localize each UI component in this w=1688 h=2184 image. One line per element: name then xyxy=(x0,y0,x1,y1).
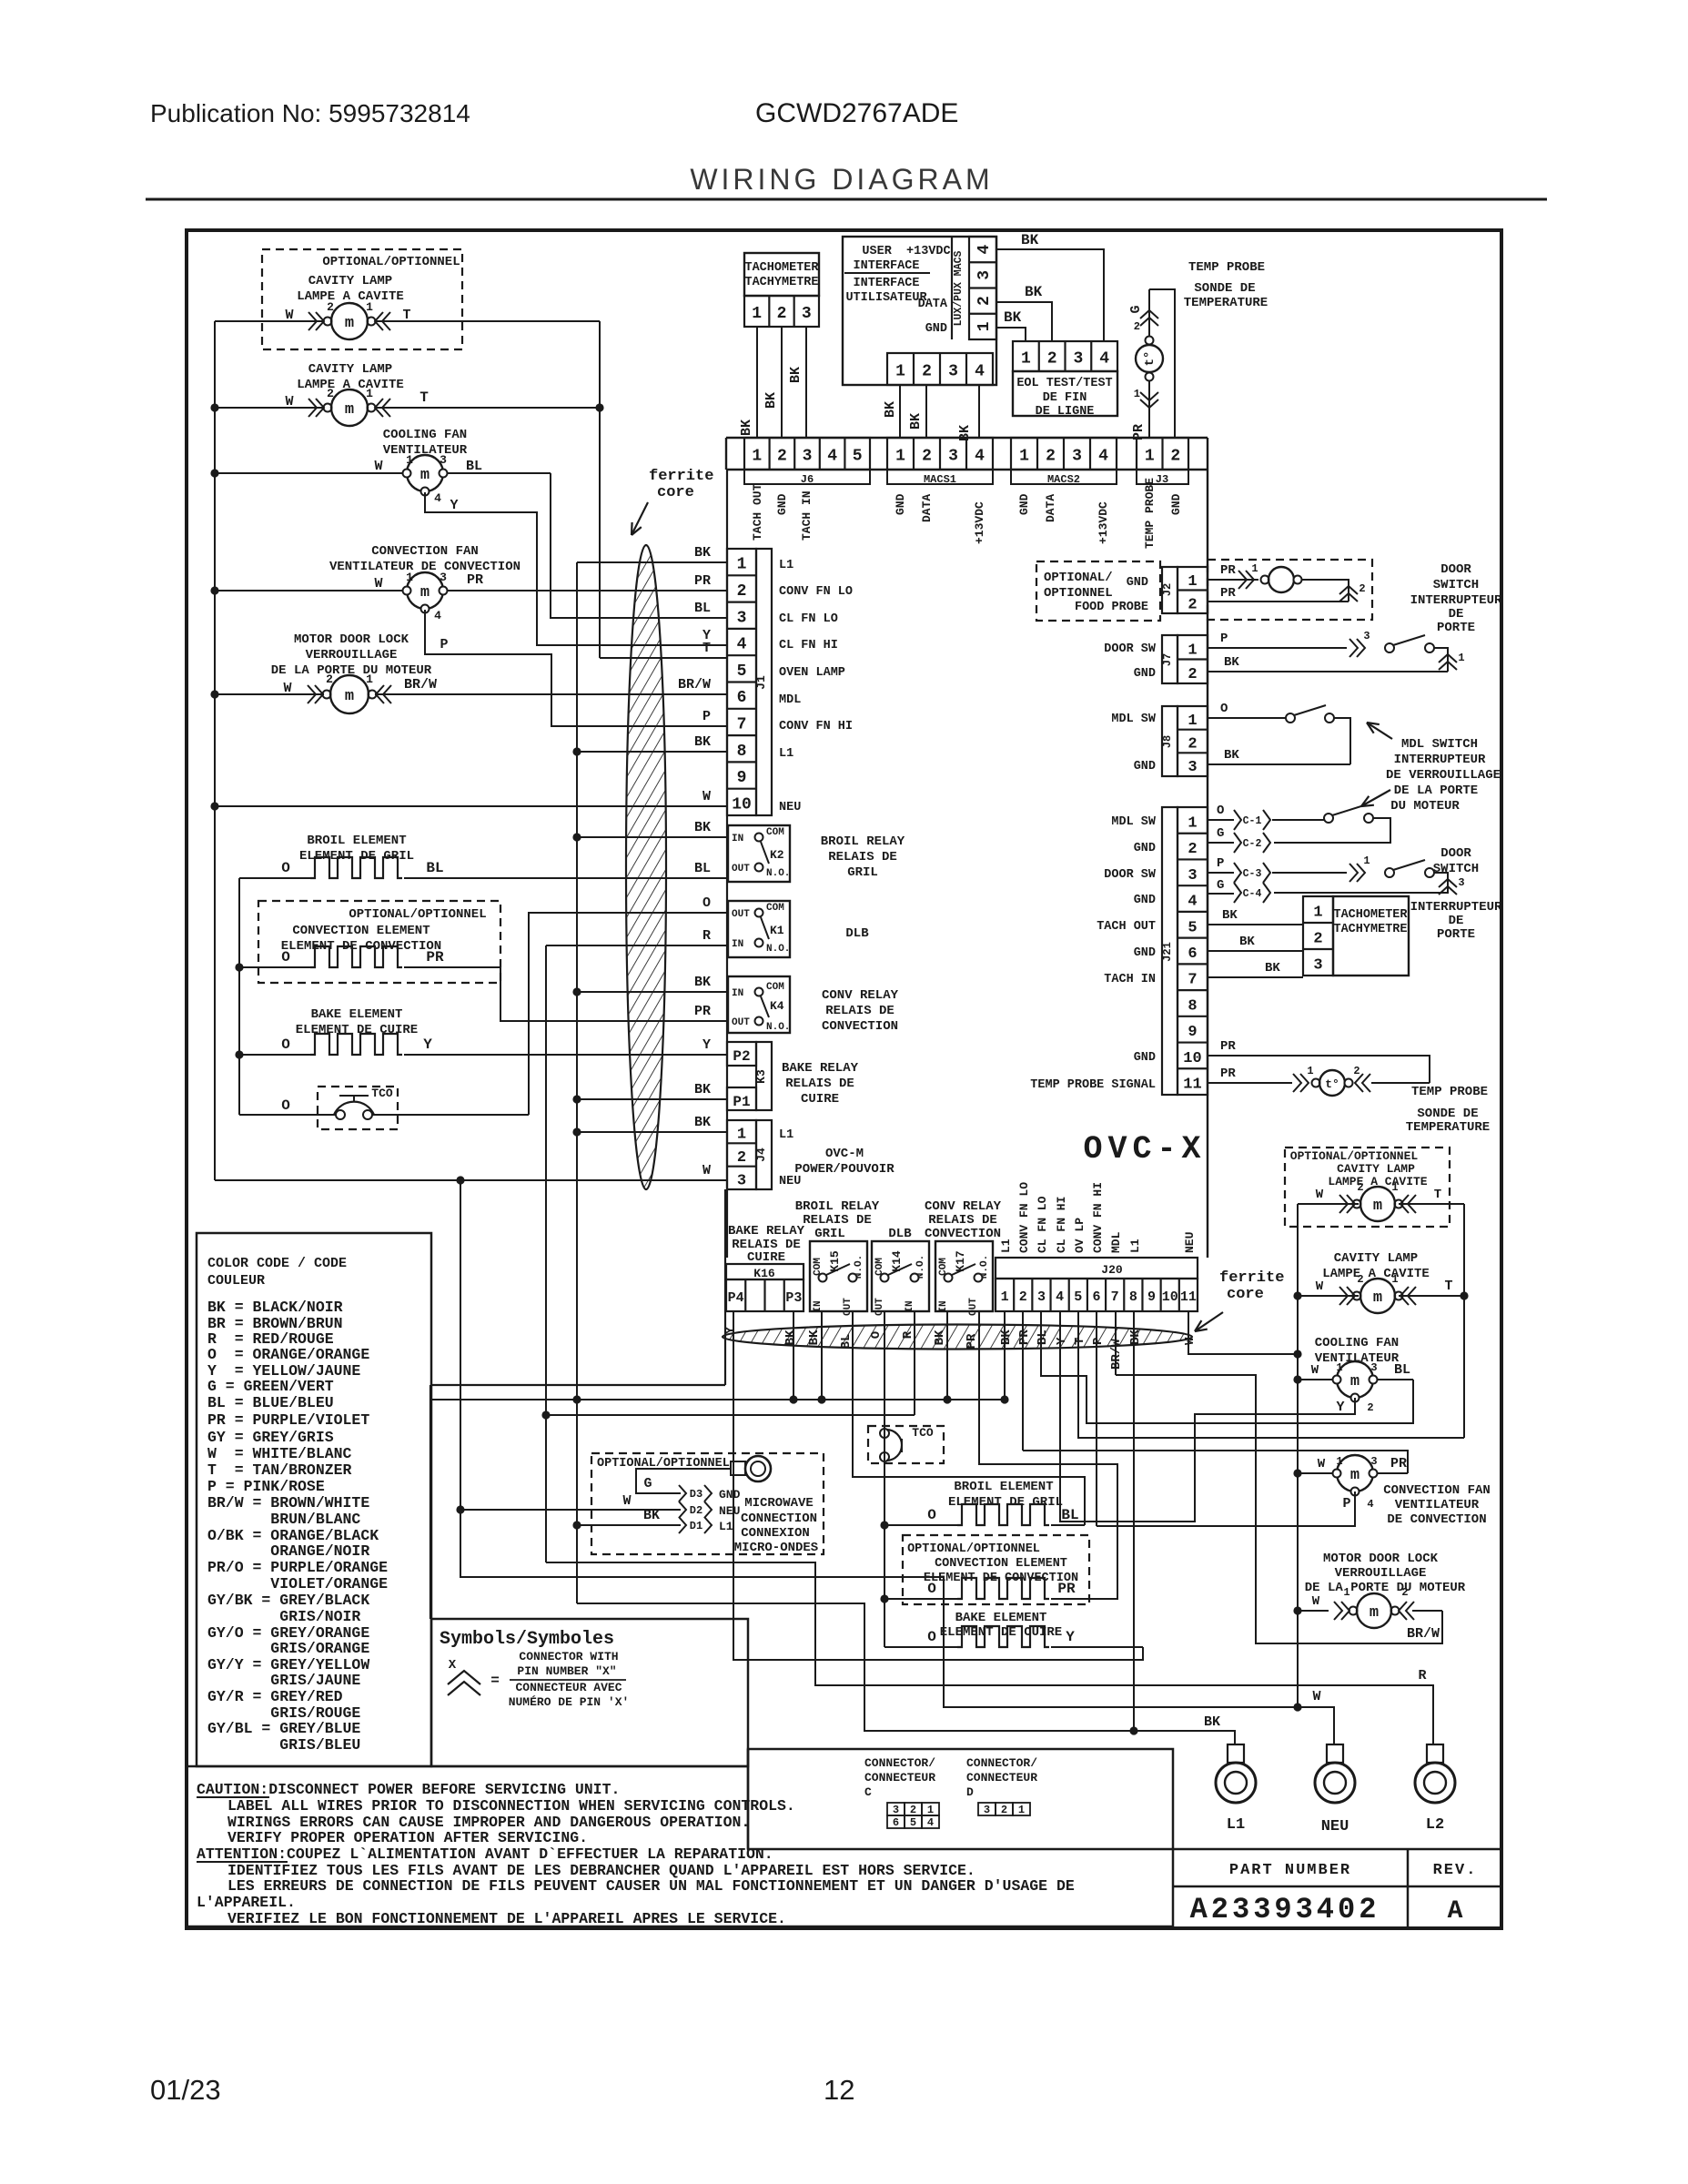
svg-text:BK: BK xyxy=(643,1508,660,1523)
food probe switch circuit xyxy=(1208,579,1258,581)
svg-text:DE LIGNE: DE LIGNE xyxy=(1036,405,1095,419)
svg-text:DE LA PORTE: DE LA PORTE xyxy=(1394,784,1478,798)
optional convection element 2 dashed box xyxy=(903,1535,1089,1604)
svg-text:4: 4 xyxy=(1188,894,1197,911)
svg-text:1: 1 xyxy=(1188,642,1197,659)
svg-text:O: O xyxy=(281,860,290,876)
svg-text:X: X xyxy=(449,1658,457,1673)
svg-text:m: m xyxy=(345,401,354,419)
svg-text:RELAIS DE: RELAIS DE xyxy=(928,1213,997,1228)
svg-text:O: O xyxy=(927,1581,936,1597)
svg-text:TACH OUT: TACH OUT xyxy=(1097,920,1156,934)
connector J7 xyxy=(1162,635,1178,683)
svg-text:3: 3 xyxy=(948,363,958,381)
svg-text:UTILISATEUR: UTILISATEUR xyxy=(845,291,927,305)
svg-text:DE: DE xyxy=(1449,607,1464,622)
wire BL to J1-3 xyxy=(551,473,728,618)
svg-text:DU MOTEUR: DU MOTEUR xyxy=(1390,799,1460,814)
svg-text:3: 3 xyxy=(1363,630,1370,642)
svg-text:CL FN HI: CL FN HI xyxy=(779,639,838,652)
svg-text:ferrite: ferrite xyxy=(1219,1269,1284,1287)
svg-text:PR: PR xyxy=(1390,1456,1407,1471)
svg-text:BR/W = BROWN/WHITE: BR/W = BROWN/WHITE xyxy=(207,1494,369,1512)
svg-text:OUT: OUT xyxy=(732,909,750,920)
food probe dashed box xyxy=(1036,561,1160,621)
wire R bus bottom xyxy=(546,1414,915,1416)
svg-text:D3: D3 xyxy=(690,1488,702,1501)
svg-text:BL = BLUE/BLEU: BL = BLUE/BLEU xyxy=(207,1394,334,1411)
relay K3 bake xyxy=(727,1042,756,1066)
svg-text:2: 2 xyxy=(777,448,787,466)
svg-text:J6: J6 xyxy=(801,473,814,486)
svg-text:GND: GND xyxy=(1169,493,1183,515)
svg-text:GRIL: GRIL xyxy=(847,865,878,880)
svg-text:L'APPAREIL.: L'APPAREIL. xyxy=(197,1894,296,1911)
svg-text:T = TAN/BRONZER: T = TAN/BRONZER xyxy=(207,1461,352,1479)
svg-text:USER +13VDC: USER +13VDC xyxy=(862,245,950,258)
svg-text:W: W xyxy=(285,394,293,409)
svg-text:4: 4 xyxy=(737,636,747,654)
svg-text:C-3: C-3 xyxy=(1243,868,1262,880)
svg-text:11: 11 xyxy=(1180,1289,1197,1305)
cavity lamp 3 xyxy=(1298,1203,1359,1205)
svg-text:6: 6 xyxy=(893,1816,899,1829)
svg-text:1: 1 xyxy=(1188,814,1197,832)
svg-text:IN: IN xyxy=(905,1300,915,1312)
wire BL cooling fan 2 xyxy=(1041,1311,1413,1423)
svg-text:MDL SW: MDL SW xyxy=(1111,713,1157,726)
svg-text:TACHYMETRE: TACHYMETRE xyxy=(1333,923,1407,936)
svg-text:1: 1 xyxy=(975,321,994,331)
svg-text:L1: L1 xyxy=(719,1520,733,1533)
svg-text:BK: BK xyxy=(957,425,973,441)
wire BL K15 to broil element 2 xyxy=(853,1311,1085,1525)
svg-text:1: 1 xyxy=(895,448,905,466)
wire P convection fan 2 xyxy=(1097,1491,1355,1526)
svg-text:TCO: TCO xyxy=(912,1426,934,1440)
svg-text:2: 2 xyxy=(1359,582,1365,595)
svg-text:3: 3 xyxy=(737,609,747,627)
svg-text:PR: PR xyxy=(426,949,444,966)
svg-text:3: 3 xyxy=(1370,1361,1377,1374)
svg-text:BAKE RELAY: BAKE RELAY xyxy=(782,1061,859,1076)
wire P to J1-7 xyxy=(425,610,728,726)
svg-text:BK: BK xyxy=(1021,232,1039,248)
svg-text:1: 1 xyxy=(737,556,747,574)
svg-text:3: 3 xyxy=(1073,350,1083,369)
relay K2 broil xyxy=(728,825,790,882)
svg-text:NEU: NEU xyxy=(1183,1232,1197,1253)
relay K4 convection xyxy=(728,976,790,1033)
svg-text:A23393402: A23393402 xyxy=(1190,1893,1380,1926)
svg-text:DLB: DLB xyxy=(845,926,869,941)
wire T to J1-5 xyxy=(600,657,728,659)
connector J6 xyxy=(744,438,870,470)
svg-text:MACS2: MACS2 xyxy=(1047,473,1080,486)
cavity lamp 2 xyxy=(215,407,324,409)
svg-text:MDL SWITCH: MDL SWITCH xyxy=(1401,737,1478,752)
wire Y to J1-4 xyxy=(425,492,728,645)
EOL test box xyxy=(1013,341,1117,371)
svg-text:T: T xyxy=(419,389,429,406)
svg-text:C-4: C-4 xyxy=(1243,888,1262,900)
svg-text:VERIFIEZ LE BON FONCTIONNEMENT: VERIFIEZ LE BON FONCTIONNEMENT DE L'APPA… xyxy=(227,1910,786,1927)
svg-text:6: 6 xyxy=(1188,945,1197,963)
svg-text:1: 1 xyxy=(1019,448,1029,466)
svg-text:L1: L1 xyxy=(779,1128,793,1142)
svg-text:DE: DE xyxy=(1449,914,1464,928)
svg-text:MDL SW: MDL SW xyxy=(1111,815,1157,829)
svg-text:O: O xyxy=(702,895,711,911)
mdl switch label arrows xyxy=(1367,723,1392,739)
svg-text:D2: D2 xyxy=(690,1504,702,1517)
terminal L2 xyxy=(1427,1744,1443,1763)
wires BK to tachometer 2 xyxy=(1208,924,1303,925)
optional cavity lamp dashed box xyxy=(262,249,462,349)
connector C pin table xyxy=(887,1803,905,1815)
svg-text:C-2: C-2 xyxy=(1243,838,1262,850)
svg-text:P1: P1 xyxy=(733,1094,750,1110)
wire W to NEU terminal xyxy=(460,1510,1298,1707)
svg-text:W: W xyxy=(285,308,293,323)
svg-text:1: 1 xyxy=(1391,1181,1398,1194)
svg-text:4: 4 xyxy=(975,245,994,255)
svg-text:TEMPERATURE: TEMPERATURE xyxy=(1184,296,1268,310)
svg-text:L1: L1 xyxy=(779,559,793,572)
svg-text:BK: BK xyxy=(1239,935,1255,949)
svg-text:OUT: OUT xyxy=(732,864,750,875)
wire W microwave xyxy=(460,1509,681,1511)
svg-text:N.O.: N.O. xyxy=(766,944,790,955)
svg-text:PR/O = PURPLE/ORANGE: PR/O = PURPLE/ORANGE xyxy=(207,1559,388,1576)
svg-text:CONNECTEUR: CONNECTEUR xyxy=(966,1771,1037,1785)
TCO thermal cutout dashed box xyxy=(318,1087,398,1129)
wire BK microwave xyxy=(577,1524,681,1526)
svg-text:L1: L1 xyxy=(999,1239,1013,1253)
svg-text:O = ORANGE/ORANGE: O = ORANGE/ORANGE xyxy=(207,1346,369,1363)
svg-text:3: 3 xyxy=(948,448,958,466)
svg-text:1: 1 xyxy=(1336,1361,1342,1374)
wire Y cooling fan 2 xyxy=(1060,1311,1355,1522)
svg-text:EOL TEST/TEST: EOL TEST/TEST xyxy=(1016,377,1112,390)
svg-text:4: 4 xyxy=(827,448,837,466)
wire BK to K2 IN xyxy=(577,836,728,838)
svg-text:9: 9 xyxy=(737,769,747,787)
cavity lamp 1 xyxy=(215,320,324,322)
svg-text:BK: BK xyxy=(694,1115,711,1130)
svg-text:MOTOR DOOR LOCK: MOTOR DOOR LOCK xyxy=(1323,1552,1439,1566)
svg-text:BAKE RELAY: BAKE RELAY xyxy=(728,1224,805,1239)
svg-text:1: 1 xyxy=(1251,562,1258,575)
neutral bus right xyxy=(1297,1204,1299,1707)
food probe switch dashed box xyxy=(1208,560,1372,620)
svg-text:MOTOR DOOR LOCK: MOTOR DOOR LOCK xyxy=(294,632,409,647)
svg-text:OV LP: OV LP xyxy=(1073,1218,1087,1253)
connector D pin table xyxy=(978,1803,996,1815)
svg-text:CL FN LO: CL FN LO xyxy=(1036,1196,1049,1253)
svg-text:WIRING DIAGRAM: WIRING DIAGRAM xyxy=(690,163,993,196)
svg-text:ATTENTION:COUPEZ L`ALIMENTATIO: ATTENTION:COUPEZ L`ALIMENTATION AVANT D`… xyxy=(197,1845,773,1863)
svg-text:2: 2 xyxy=(777,305,787,323)
svg-text:4: 4 xyxy=(434,491,441,505)
svg-text:J3: J3 xyxy=(1156,473,1168,486)
svg-text:2: 2 xyxy=(1313,931,1322,948)
svg-text:CONV RELAY: CONV RELAY xyxy=(925,1199,1002,1214)
svg-text:D: D xyxy=(966,1785,974,1799)
convection fan xyxy=(215,590,407,591)
symbols box xyxy=(431,1619,748,1766)
svg-text:3: 3 xyxy=(802,305,812,323)
bake element 2 xyxy=(884,1599,885,1647)
wire W J20-11 to bus xyxy=(1188,1311,1298,1354)
svg-text:GND: GND xyxy=(1134,842,1156,855)
svg-text:PR: PR xyxy=(1220,1039,1236,1054)
svg-text:+13VDC: +13VDC xyxy=(1097,501,1110,544)
svg-text:DOOR SW: DOOR SW xyxy=(1104,642,1157,656)
svg-text:BL: BL xyxy=(426,860,443,876)
relay K16 xyxy=(726,1264,804,1279)
wire BK MACS4 to EOL4 xyxy=(996,249,1104,341)
svg-text:CONNECTOR/: CONNECTOR/ xyxy=(966,1756,1037,1770)
svg-text:REV.: REV. xyxy=(1433,1862,1478,1879)
broil element 2 xyxy=(884,1524,957,1526)
svg-text:6: 6 xyxy=(1092,1289,1100,1305)
svg-text:m: m xyxy=(345,315,354,332)
svg-text:1: 1 xyxy=(927,1804,934,1816)
svg-text:9: 9 xyxy=(1188,1024,1197,1041)
wire Y K16-P4 to bake element 2 xyxy=(733,1311,1143,1660)
svg-text:O: O xyxy=(927,1629,936,1645)
door switch 2 circuit xyxy=(1208,872,1234,874)
wire BK to J1-8 xyxy=(577,751,728,753)
svg-text:1: 1 xyxy=(895,363,905,381)
svg-text:1: 1 xyxy=(1145,448,1155,466)
svg-text:LAMPE A CAVITE: LAMPE A CAVITE xyxy=(297,289,404,304)
svg-text:DOOR: DOOR xyxy=(1440,562,1471,577)
svg-text:1: 1 xyxy=(1001,1289,1009,1305)
svg-text:C: C xyxy=(864,1785,872,1799)
svg-text:PR: PR xyxy=(1220,586,1236,601)
svg-text:INTERRUPTEUR: INTERRUPTEUR xyxy=(1410,900,1502,915)
wire BK bus L1 xyxy=(576,562,578,1603)
svg-text:10: 10 xyxy=(1162,1289,1178,1305)
svg-text:5: 5 xyxy=(737,662,747,681)
left bus wire O xyxy=(238,878,240,1115)
svg-text:R: R xyxy=(702,928,711,944)
svg-text:O: O xyxy=(281,949,290,966)
wire BK to K4 IN xyxy=(577,991,728,993)
svg-text:P: P xyxy=(702,709,711,724)
svg-text:BK: BK xyxy=(1004,309,1022,326)
cooling fan 2 xyxy=(1298,1379,1337,1380)
svg-text:J7: J7 xyxy=(1161,653,1174,666)
svg-text:K16: K16 xyxy=(753,1267,775,1280)
svg-text:W: W xyxy=(1312,1594,1320,1609)
svg-text:CL FN HI: CL FN HI xyxy=(1055,1197,1068,1253)
tachometer box top xyxy=(744,253,819,296)
svg-text:G = GREEN/VERT: G = GREEN/VERT xyxy=(207,1378,334,1395)
svg-text:DE VERROUILLAGE: DE VERROUILLAGE xyxy=(1386,768,1501,783)
svg-text:5: 5 xyxy=(853,448,863,466)
svg-text:3: 3 xyxy=(440,571,447,584)
svg-text:OPTIONAL/OPTIONNEL: OPTIONAL/OPTIONNEL xyxy=(907,1542,1040,1556)
svg-text:m: m xyxy=(345,688,354,705)
connector J2 xyxy=(1162,567,1178,613)
svg-text:SWITCH: SWITCH xyxy=(1433,578,1479,592)
svg-text:8: 8 xyxy=(1129,1289,1137,1305)
wire PR convection fan 2 xyxy=(1023,1451,1408,1473)
svg-text:ELEMENT DE CONVECTION: ELEMENT DE CONVECTION xyxy=(924,1572,1078,1585)
svg-text:TEMPERATURE: TEMPERATURE xyxy=(1406,1120,1490,1135)
svg-text:GRIS/NOIR: GRIS/NOIR xyxy=(207,1608,360,1625)
svg-text:G: G xyxy=(1217,878,1224,893)
wire R from K1 xyxy=(546,945,728,946)
svg-text:BL: BL xyxy=(466,459,482,474)
svg-text:1: 1 xyxy=(406,453,413,467)
svg-text:TCO: TCO xyxy=(371,1087,393,1100)
svg-text:2: 2 xyxy=(1401,1586,1408,1599)
wire O from K1 to TCO xyxy=(529,913,728,1115)
svg-text:2: 2 xyxy=(1001,1804,1007,1816)
svg-text:1: 1 xyxy=(1134,388,1140,400)
svg-text:BK: BK xyxy=(908,413,924,430)
svg-text:FOOD PROBE: FOOD PROBE xyxy=(1075,601,1148,614)
svg-text:BR/W: BR/W xyxy=(1407,1626,1440,1642)
svg-text:G: G xyxy=(1217,826,1224,841)
svg-text:CAVITY LAMP: CAVITY LAMP xyxy=(1334,1251,1418,1266)
svg-text:D1: D1 xyxy=(690,1520,702,1532)
svg-text:C-1: C-1 xyxy=(1243,815,1262,827)
svg-text:1: 1 xyxy=(1458,652,1464,664)
svg-text:OVC-M: OVC-M xyxy=(825,1147,864,1161)
svg-text:1: 1 xyxy=(366,387,373,400)
svg-text:2: 2 xyxy=(975,296,994,306)
connector MACS2 xyxy=(1011,438,1117,470)
svg-text:COOLING FAN: COOLING FAN xyxy=(1315,1336,1399,1350)
svg-text:NUMÉRO DE PIN 'X': NUMÉRO DE PIN 'X' xyxy=(509,1695,630,1709)
wire W long to J1-10 xyxy=(215,805,728,807)
svg-text:K3: K3 xyxy=(754,1069,768,1084)
svg-text:3: 3 xyxy=(1188,759,1197,776)
svg-text:INTERRUPTEUR: INTERRUPTEUR xyxy=(1410,593,1502,608)
TCO 2 dashed box xyxy=(868,1426,944,1463)
connector J3 xyxy=(1137,438,1188,470)
connector J1 xyxy=(727,549,756,815)
svg-text:7: 7 xyxy=(737,715,747,733)
svg-text:+13VDC: +13VDC xyxy=(973,501,986,544)
left bus wire W xyxy=(214,321,216,1180)
svg-text:NEU: NEU xyxy=(719,1504,740,1518)
svg-text:10: 10 xyxy=(732,795,752,814)
svg-text:BK: BK xyxy=(694,1082,711,1097)
svg-text:3: 3 xyxy=(1458,876,1464,889)
svg-text:m: m xyxy=(420,467,430,484)
svg-text:PR = PURPLE/VIOLET: PR = PURPLE/VIOLET xyxy=(207,1411,369,1429)
svg-text:BROIL RELAY: BROIL RELAY xyxy=(795,1199,880,1214)
svg-text:CONV FN LO: CONV FN LO xyxy=(779,585,853,599)
svg-text:ELEMENT DE GRIL: ELEMENT DE GRIL xyxy=(948,1495,1063,1510)
svg-text:4: 4 xyxy=(1099,350,1109,369)
svg-text:1: 1 xyxy=(1391,1273,1398,1286)
svg-text:BROIL ELEMENT: BROIL ELEMENT xyxy=(954,1480,1053,1494)
svg-text:CAVITY LAMP: CAVITY LAMP xyxy=(308,274,392,288)
TCO 2 xyxy=(880,1429,889,1438)
TCO thermal cutout xyxy=(239,1114,336,1116)
svg-text:1: 1 xyxy=(406,571,413,584)
temp probe top xyxy=(1148,289,1150,438)
svg-text:O: O xyxy=(927,1507,936,1523)
svg-text:3: 3 xyxy=(1188,867,1197,885)
svg-text:2: 2 xyxy=(1046,448,1056,466)
svg-text:BROIL ELEMENT: BROIL ELEMENT xyxy=(307,834,406,848)
svg-text:4: 4 xyxy=(1098,448,1108,466)
svg-text:DE FIN: DE FIN xyxy=(1043,391,1087,405)
svg-text:BROIL RELAY: BROIL RELAY xyxy=(821,834,905,849)
svg-text:7: 7 xyxy=(1188,972,1197,989)
svg-text:3: 3 xyxy=(893,1804,899,1816)
svg-text:1: 1 xyxy=(1307,1065,1313,1077)
svg-text:BK: BK xyxy=(1224,748,1239,763)
svg-text:L1: L1 xyxy=(1128,1239,1142,1253)
svg-text:TEMP PROBE: TEMP PROBE xyxy=(1411,1085,1488,1099)
svg-text:GY = GREY/GRIS: GY = GREY/GRIS xyxy=(207,1429,334,1446)
svg-text:BK: BK xyxy=(763,392,779,409)
svg-text:Y: Y xyxy=(702,1037,711,1053)
svg-text:GY/BL = GREY/BLUE: GY/BL = GREY/BLUE xyxy=(207,1720,360,1737)
svg-text:TEMP PROBE: TEMP PROBE xyxy=(1143,478,1157,549)
svg-text:BK = BLACK/NOIR: BK = BLACK/NOIR xyxy=(207,1299,343,1316)
svg-text:1: 1 xyxy=(1188,573,1197,591)
svg-text:W: W xyxy=(1318,1457,1326,1471)
svg-text:TEMP PROBE SIGNAL: TEMP PROBE SIGNAL xyxy=(1030,1078,1156,1092)
svg-text:DOOR SW: DOOR SW xyxy=(1104,868,1157,882)
svg-text:W: W xyxy=(374,576,382,591)
svg-text:BK: BK xyxy=(1224,655,1239,670)
svg-text:4: 4 xyxy=(975,363,985,381)
cavity lamp 4 xyxy=(1298,1295,1359,1297)
svg-text:VERROUILLAGE: VERROUILLAGE xyxy=(306,648,398,662)
svg-text:BK: BK xyxy=(694,975,711,990)
svg-text:CONNECTOR WITH: CONNECTOR WITH xyxy=(519,1650,618,1663)
svg-text:W: W xyxy=(1312,1689,1320,1704)
svg-text:2: 2 xyxy=(1188,841,1197,858)
svg-text:DE CONVECTION: DE CONVECTION xyxy=(1387,1512,1486,1527)
svg-text:NEU: NEU xyxy=(779,801,801,814)
wire BK bus bottom xyxy=(430,1399,1005,1400)
svg-text:CONVECTION ELEMENT: CONVECTION ELEMENT xyxy=(935,1557,1067,1571)
svg-text:COM: COM xyxy=(766,827,784,838)
motor door lock 2 xyxy=(1298,1610,1329,1612)
svg-text:W: W xyxy=(1316,1279,1324,1294)
svg-text:2: 2 xyxy=(1353,1065,1359,1077)
svg-text:VIOLET/ORANGE: VIOLET/ORANGE xyxy=(207,1575,388,1592)
svg-text:DATA: DATA xyxy=(1044,494,1057,522)
svg-text:5: 5 xyxy=(1074,1289,1082,1305)
svg-text:W: W xyxy=(1316,1188,1324,1202)
svg-text:3: 3 xyxy=(1370,1455,1377,1468)
svg-text:3: 3 xyxy=(1072,448,1082,466)
svg-text:CONVECTION FAN: CONVECTION FAN xyxy=(371,544,479,559)
svg-text:W = WHITE/BLANC: W = WHITE/BLANC xyxy=(207,1445,352,1462)
svg-text:2: 2 xyxy=(922,363,932,381)
svg-text:11: 11 xyxy=(1183,1077,1201,1094)
wire W bus vertical xyxy=(460,1180,461,1510)
svg-text:CUIRE: CUIRE xyxy=(801,1092,839,1107)
svg-text:COOLING FAN: COOLING FAN xyxy=(383,428,467,442)
svg-text:8: 8 xyxy=(1188,997,1197,1015)
svg-text:4: 4 xyxy=(927,1816,934,1829)
svg-text:BL: BL xyxy=(1061,1507,1078,1523)
